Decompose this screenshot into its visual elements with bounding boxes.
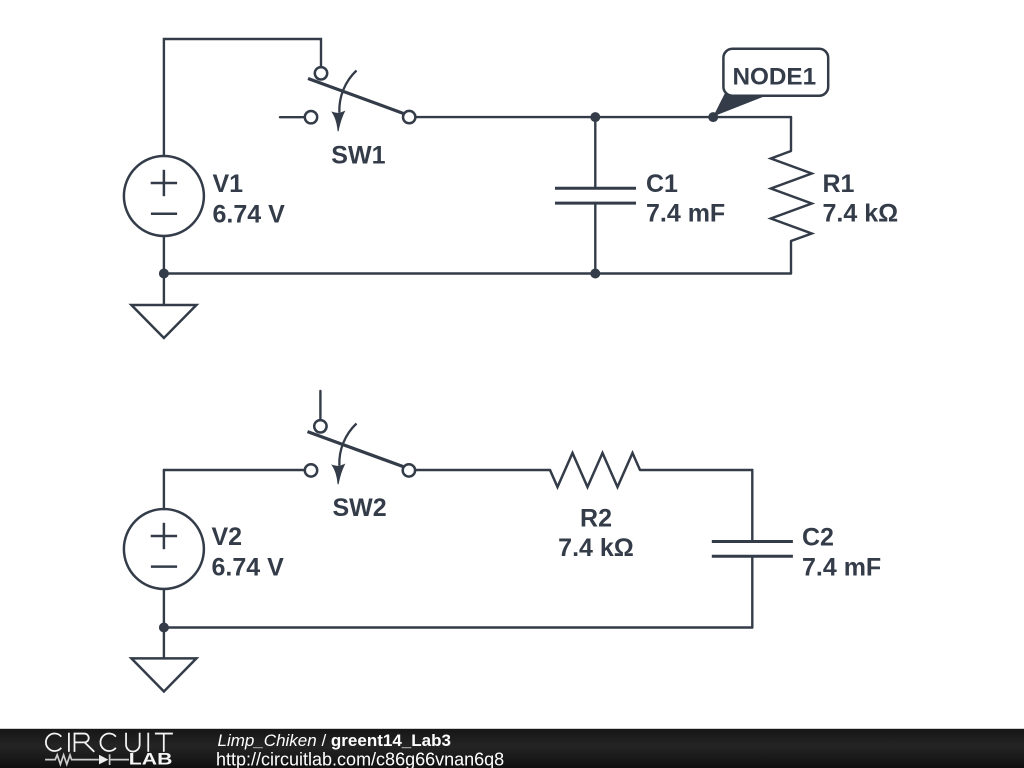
SW2 terminals xyxy=(305,420,415,477)
wire R1 vertical top xyxy=(790,117,792,151)
svg-text:R1: R1 xyxy=(823,170,855,198)
wire bottom rail circuit 2 xyxy=(164,626,752,628)
svg-text:7.4 mF: 7.4 mF xyxy=(802,554,881,582)
resistor R2 xyxy=(550,453,640,487)
svg-text:6.74 V: 6.74 V xyxy=(213,200,286,228)
SW1 terminals xyxy=(305,67,416,123)
logo letter C xyxy=(100,733,115,751)
wire V1 bottom to ground xyxy=(163,236,165,305)
wire R1 vertical bottom xyxy=(790,241,792,274)
svg-text:7.4 kΩ: 7.4 kΩ xyxy=(823,200,899,228)
wire top-left V1 to SW1 xyxy=(164,39,321,155)
svg-text:6.74 V: 6.74 V xyxy=(212,553,285,581)
logo letter U xyxy=(126,733,140,752)
CircuitLab logo CIRCUIT (custom thin letters) xyxy=(46,733,173,752)
wire C1 top xyxy=(594,117,596,188)
logo letter R xyxy=(75,734,95,752)
svg-text:Limp_Chiken / greent14_Lab3: Limp_Chiken / greent14_Lab3 xyxy=(218,731,451,750)
svg-text:SW1: SW1 xyxy=(331,141,385,169)
NODE1 callout pointer xyxy=(713,93,766,117)
resistor R1 xyxy=(771,151,812,241)
svg-text:7.4 kΩ: 7.4 kΩ xyxy=(558,534,634,562)
wire C1 bottom xyxy=(594,203,596,273)
svg-text:V1: V1 xyxy=(213,170,244,198)
node dot NODE1 junction xyxy=(708,112,718,122)
svg-text:C2: C2 xyxy=(802,523,834,551)
wire V2 top xyxy=(163,470,165,509)
svg-text:V2: V2 xyxy=(212,523,243,551)
svg-text:C1: C1 xyxy=(646,170,678,198)
svg-text:R2: R2 xyxy=(580,504,612,532)
wire SW2 top stub xyxy=(319,391,321,419)
wire R2 to C2 corner xyxy=(640,469,752,471)
logo letter T xyxy=(155,734,173,752)
switch SW1 xyxy=(308,71,406,115)
SW1 arrowhead xyxy=(332,112,344,132)
svg-text:SW2: SW2 xyxy=(333,494,387,522)
ground circuit 1 xyxy=(131,305,196,338)
wire SW2 right to R2 xyxy=(416,469,550,471)
node dot V2 ground junction xyxy=(159,623,169,633)
voltage source V1 xyxy=(124,156,204,236)
ground circuit 2 xyxy=(131,658,196,691)
wire C2 bottom xyxy=(751,556,753,627)
SW2 arrowhead xyxy=(332,465,344,485)
CircuitLab logo resistor symbol xyxy=(45,754,129,765)
logo letter C xyxy=(46,734,61,751)
node dot C1 top junction xyxy=(590,112,600,122)
wire SW1 left stub xyxy=(280,116,304,118)
svg-text:7.4 mF: 7.4 mF xyxy=(646,200,725,228)
svg-text:NODE1: NODE1 xyxy=(732,64,816,91)
capacitor C1 xyxy=(555,188,636,203)
wire bottom rail circuit 1 xyxy=(164,272,791,274)
switch SW2 xyxy=(308,424,406,468)
svg-text:LAB: LAB xyxy=(129,751,173,768)
wire SW1 right to R1 corner xyxy=(417,116,792,118)
wire C2 top xyxy=(751,470,753,542)
CircuitLab logo diode symbol xyxy=(99,755,108,765)
voltage source V2 xyxy=(124,509,204,589)
NODE1 callout box xyxy=(723,49,828,96)
capacitor C2 xyxy=(712,542,793,557)
node dot C1 bottom junction xyxy=(590,269,600,279)
svg-text:http://circuitlab.com/c86g66vn: http://circuitlab.com/c86g66vnan6q8 xyxy=(216,749,504,768)
logo letter I xyxy=(68,733,70,752)
wire V2 bottom to ground xyxy=(163,589,165,658)
node dot V1 ground junction xyxy=(159,269,169,279)
wire V2 to SW2 left xyxy=(164,469,304,471)
logo letter I xyxy=(147,733,149,752)
